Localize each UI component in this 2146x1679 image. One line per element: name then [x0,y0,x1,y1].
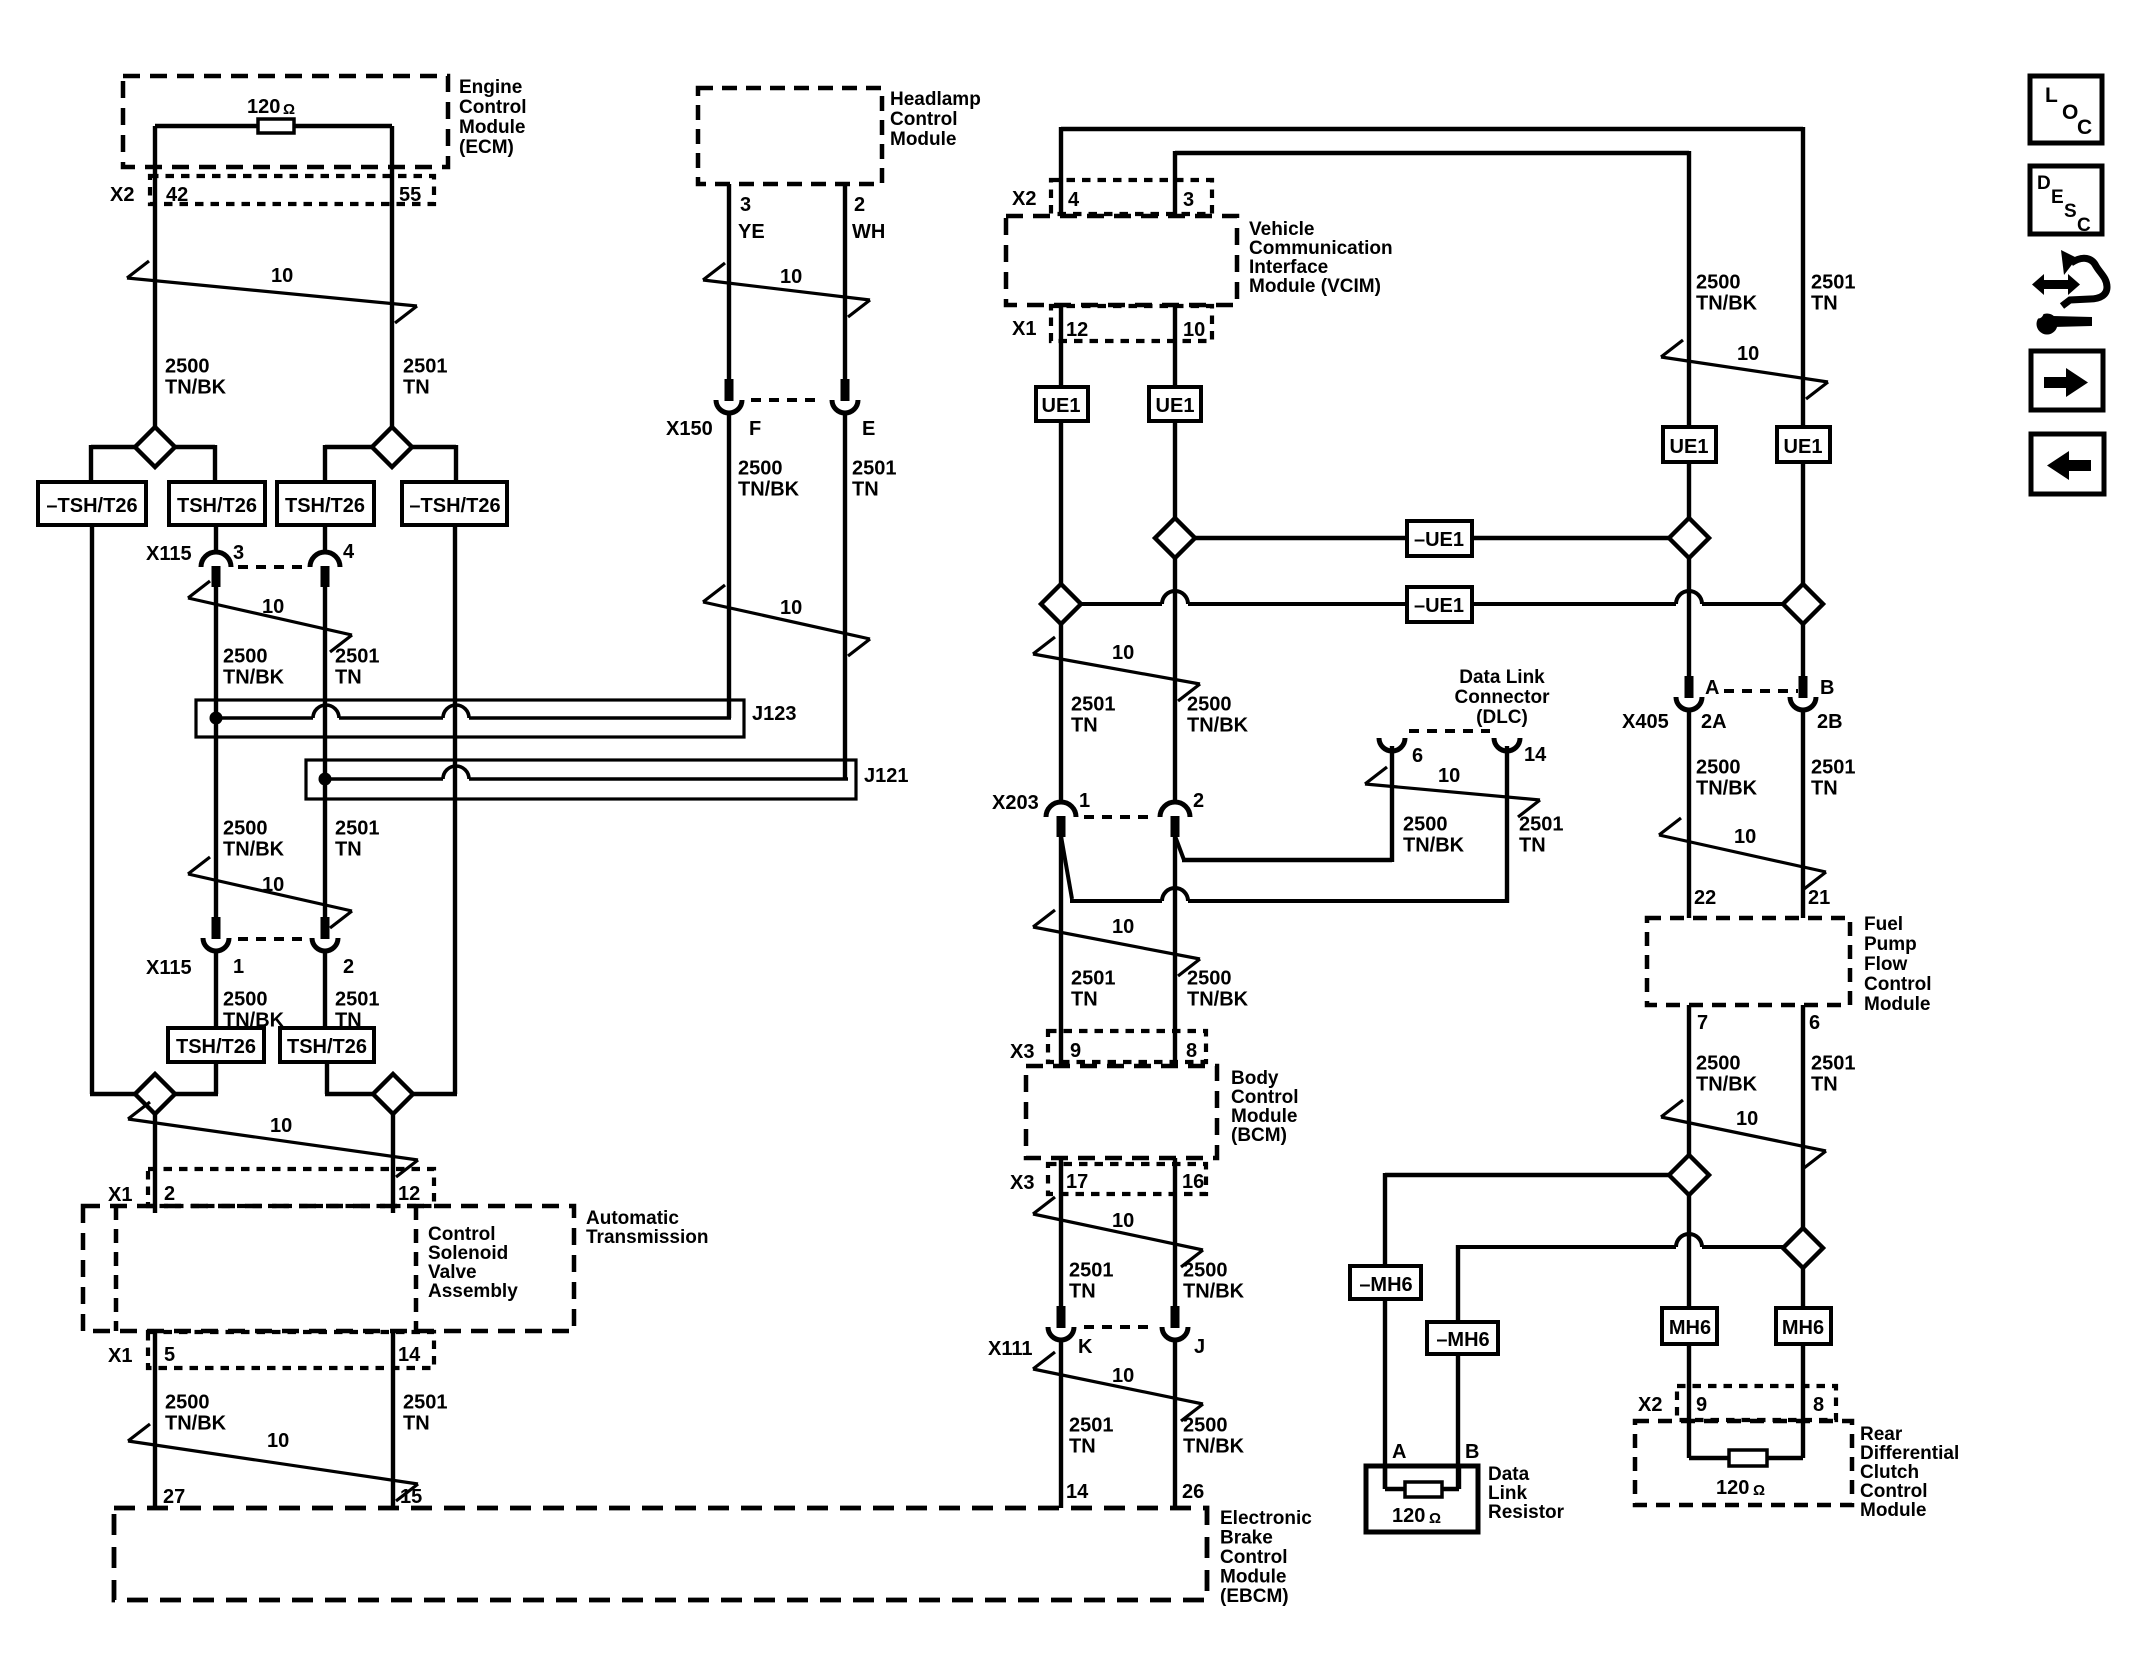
svg-text:Assembly: Assembly [428,1281,518,1302]
pin 1 label (X115) [233,956,244,978]
connector row X2 (VCIM) dotted box [1051,180,1212,214]
svg-text:C: C [2077,215,2091,236]
svg-text:TN/BK: TN/BK [738,479,800,501]
pin 42 (ECM X2) [166,184,188,206]
svg-text:YE: YE [738,221,765,243]
wire splice S2 to -TSH/T26 branch [412,445,456,482]
svg-text:Module: Module [1231,1106,1298,1127]
pin 26 label (EBCM) [1182,1481,1204,1503]
wire splice S8 to X405 B [1801,622,1805,676]
svg-text:TN: TN [1069,1436,1096,1458]
pin 6 label (fuel pump) [1809,1012,1820,1034]
twisted pair indicator below X203 [1033,910,1200,976]
label Data Link Connector (DLC) [1455,667,1551,728]
wire TSH/T26 lower-right to splice S4 [325,1062,373,1094]
label 2501 TN (above BCM) [1071,968,1116,1011]
label 2501 TN (top right) [1811,272,1856,315]
svg-text:10: 10 [1737,343,1759,365]
twisted pair indicator top right [1661,340,1828,399]
label 2500 TN/BK (X405) [1696,757,1758,800]
svg-text:2500: 2500 [165,356,210,378]
splice S10 diamond 2501 right [1783,1228,1823,1268]
svg-text:(DLC): (DLC) [1476,707,1528,728]
splice pack J121 housing [306,760,856,799]
pin A label (data link resistor) [1392,1441,1406,1463]
svg-text:(ECM): (ECM) [459,137,514,158]
svg-text:1: 1 [233,956,244,978]
label Data Link Resistor [1488,1464,1565,1523]
svg-text:8: 8 [1186,1040,1197,1062]
module Data Link Resistor box [1366,1466,1478,1532]
twisted pair indicator above EBCM [128,1424,418,1501]
wire UE1 right to splice S8 [1801,462,1805,584]
connector X405 dashed link [1724,689,1798,693]
svg-text:Transmission: Transmission [586,1227,709,1248]
svg-text:Flow: Flow [1864,954,1907,975]
svg-text:J123: J123 [752,703,797,725]
pin 21 label (fuel pump) [1808,887,1830,909]
connector X405 B terminal [1790,676,1816,710]
pin 15 label (EBCM) [400,1486,422,1508]
svg-text:–MH6: –MH6 [1359,1274,1412,1296]
label Fuel Pump Flow Control Module [1864,914,1932,1015]
splice S3 diamond lower 2500 [135,1074,175,1114]
label X3 (BCM upper) [1010,1041,1034,1063]
svg-text:TN/BK: TN/BK [223,839,285,861]
harness tag -TSH/T26 (right) [402,482,507,525]
svg-text:–TSH/T26: –TSH/T26 [409,495,500,517]
svg-text:2A: 2A [1701,711,1727,733]
svg-text:10: 10 [262,596,284,618]
pin 2 label (headlamp) [854,194,865,216]
wire splice S10 branch to -MH6 lower [1458,1234,1784,1322]
svg-text:(EBCM): (EBCM) [1220,1586,1289,1607]
svg-text:(BCM): (BCM) [1231,1125,1287,1146]
connector X115 lower dashed link [238,937,306,941]
splice S9 diamond 2500 right [1669,1155,1709,1195]
wire -UE1 lower run [1081,591,1785,604]
wire VCIM pin 10 down [1173,305,1177,387]
svg-text:Resistor: Resistor [1488,1502,1565,1523]
wire 2501 TN to X203 pin 1 [1059,624,1063,801]
wire 2501 TN BCM to X111 K [1059,1158,1063,1306]
svg-text:TN/BK: TN/BK [165,1413,227,1435]
svg-text:15: 15 [400,1486,422,1508]
label 2501 TN (A/T to EBCM) [403,1392,448,1435]
svg-text:TSH/T26: TSH/T26 [285,495,365,517]
svg-text:D: D [2037,173,2051,194]
svg-text:6: 6 [1412,745,1423,767]
svg-text:2501: 2501 [1519,814,1564,836]
wire X111 K to EBCM pin 14 [1059,1338,1063,1508]
svg-text:TN: TN [1811,293,1838,315]
icon LOC button [2030,76,2102,143]
connector X115 upper dashed link [238,565,306,569]
icon wrench [2033,308,2093,335]
svg-text:X111: X111 [988,1338,1033,1360]
svg-text:10: 10 [1112,1210,1134,1232]
svg-text:2501: 2501 [1811,757,1856,779]
label X115 (upper) [146,543,192,565]
svg-text:Control: Control [459,97,527,118]
pin 6 label (DLC) [1412,745,1423,767]
label 2500 TN/BK (A/T to EBCM) [165,1392,227,1435]
harness tag TSH/T26 (lower right) [280,1028,374,1062]
connector X115 pin 1 terminal [203,917,229,951]
pin 8 label (rear diff) [1813,1394,1824,1416]
svg-text:Brake: Brake [1220,1527,1273,1548]
splice S2 diamond on 2501 [372,427,412,467]
pin 17 label (BCM) [1066,1171,1088,1193]
label X1 (VCIM) [1012,318,1036,340]
svg-text:Module: Module [459,117,526,138]
label 2501 TN (X115 upper) [335,646,380,689]
svg-text:10: 10 [267,1430,289,1452]
label 2501 TN (below VCIM) [1071,694,1116,737]
wire long vertical left -TSH/T26 to splice S3 [90,525,135,1094]
label X405 [1622,711,1669,733]
svg-text:B: B [1465,1441,1479,1463]
svg-text:21: 21 [1808,887,1830,909]
svg-text:2: 2 [343,956,354,978]
svg-text:14: 14 [1066,1481,1089,1503]
svg-text:Control: Control [1864,974,1932,995]
harness tag TSH/T26 (left) [169,482,265,525]
svg-text:TN: TN [335,667,362,689]
pin 10 label (VCIM X1) [1183,319,1205,341]
svg-text:X2: X2 [1638,1394,1662,1416]
twisted pair indicator below X111 [1033,1352,1203,1421]
svg-text:16: 16 [1182,1171,1204,1193]
svg-text:Interface: Interface [1249,257,1328,278]
wire splice S10 to MH6 [1801,1268,1805,1308]
svg-text:Control: Control [1231,1087,1299,1108]
svg-text:Differential: Differential [1860,1443,1959,1464]
svg-text:26: 26 [1182,1481,1204,1503]
junction dot 2500 on J123 bus [210,712,223,725]
svg-text:MH6: MH6 [1782,1317,1824,1339]
label 2500 TN/BK (below BCM) [1183,1260,1245,1303]
pin 16 label (BCM) [1182,1171,1204,1193]
svg-text:X115: X115 [146,957,192,979]
twisted pair indicator (headlamp) [703,263,870,317]
module Body Control Module dashed box [1026,1066,1217,1158]
svg-text:TN/BK: TN/BK [1183,1281,1245,1303]
svg-text:2: 2 [854,194,865,216]
svg-text:Control: Control [1860,1481,1928,1502]
module Fuel Pump Flow Control Module dashed box [1647,918,1850,1005]
pin 5 label (A/T X1) [164,1344,175,1366]
svg-text:TN/BK: TN/BK [1187,989,1249,1011]
svg-text:2501: 2501 [1811,1053,1856,1075]
wire X111 J to EBCM pin 26 [1173,1338,1177,1508]
svg-text:12: 12 [398,1183,420,1205]
pin K label (X111) [1078,1336,1093,1358]
wire splice S4 to A/T X1 pin 12 [391,1114,395,1213]
label Electronic Brake Control Module (EBCM) [1220,1508,1312,1607]
svg-text:X3: X3 [1010,1041,1034,1063]
svg-text:X2: X2 [110,184,134,206]
svg-text:Body: Body [1231,1068,1279,1089]
svg-text:2500: 2500 [223,989,268,1011]
pin 9 label (BCM) [1070,1040,1081,1062]
svg-text:Rear: Rear [1860,1424,1903,1445]
svg-text:F: F [749,418,761,440]
svg-text:2501: 2501 [403,1392,448,1414]
svg-text:Automatic: Automatic [586,1208,679,1229]
svg-text:X405: X405 [1622,711,1669,733]
svg-text:10: 10 [1438,765,1460,787]
wire UE1 right to splice S7 [1687,462,1691,520]
label 2501 TN (below fuel pump) [1811,1053,1856,1096]
twisted pair indicator above transmission [128,1102,418,1177]
pin 12 label (A/T X1) [398,1183,420,1205]
twisted pair indicator above X115 lower [188,857,352,928]
icon back arrow button [2031,434,2104,494]
wire 2501 TN from ECM pin 55 [390,126,394,429]
svg-text:TSH/T26: TSH/T26 [177,495,257,517]
svg-text:TN: TN [403,1413,430,1435]
pin 2B label (X405) [1817,711,1843,733]
wire X405 A to fuel pump pin 22 [1687,708,1691,918]
svg-text:2: 2 [164,1183,175,1205]
svg-text:2501: 2501 [1071,968,1116,990]
svg-text:Control: Control [428,1224,496,1245]
wire 2501 TN A/T pin 14 to EBCM pin 15 [391,1332,395,1508]
svg-text:Pump: Pump [1864,934,1917,955]
svg-text:TN: TN [1811,778,1838,800]
svg-text:120: 120 [247,96,280,118]
harness tag -TSH/T26 (far left) [38,482,146,525]
wire TSH/T26 to X115 pin 3 [214,525,218,551]
svg-text:2501: 2501 [1071,694,1116,716]
label X2 (VCIM) [1012,188,1036,210]
svg-text:2501: 2501 [1811,272,1856,294]
pin E label (X150) [862,418,875,440]
wire MH6 to rear diff X2 pin 9 [1687,1344,1691,1423]
label 2501 TN (X150) [852,458,897,501]
svg-text:TN/BK: TN/BK [1696,1074,1758,1096]
harness tag -MH6 (lower) [1427,1322,1498,1354]
svg-text:Clutch: Clutch [1860,1462,1919,1483]
pin 4 label (X115) [343,541,355,563]
label Rear Differential Clutch Control Module [1860,1424,1959,1521]
svg-text:Module (VCIM): Module (VCIM) [1249,276,1381,297]
label 2500 TN/BK (X150) [738,458,800,501]
wire splice S1 to -TSH/T26 branch [91,445,135,482]
svg-text:10: 10 [262,874,284,896]
svg-text:12: 12 [1066,319,1088,341]
svg-text:Solenoid: Solenoid [428,1243,508,1264]
svg-text:TN: TN [403,377,430,399]
svg-text:TN/BK: TN/BK [1403,835,1465,857]
wire 2500 TN/BK from ECM pin 42 [153,126,157,429]
pin 8 label (BCM) [1186,1040,1197,1062]
wire fuel pump pin 6 to splice S10 [1801,1005,1805,1229]
wire -MH6 upper to data link resistor A [1383,1299,1387,1489]
svg-text:X203: X203 [992,792,1039,814]
resistor R3 120 ohm (data link) [1385,1466,1459,1497]
twisted pair indicator (ECM) [127,261,417,323]
wire 2501 TN X115-4 down to X115-2 [323,587,327,917]
svg-text:10: 10 [780,597,802,619]
svg-text:E: E [862,418,875,440]
pin 14 label (DLC) [1524,744,1547,766]
label WH wire color [852,221,885,243]
label 2500 TN/BK (DLC) [1403,814,1465,857]
svg-text:2501: 2501 [1069,1415,1114,1437]
pin 2 label (X203) [1193,790,1204,812]
label 2500 TN/BK (ECM) [165,356,227,399]
label X1 (lower A/T) [108,1345,132,1367]
label X115 (lower) [146,957,192,979]
wire CAN top run pin4 to 2501 TN right [1061,127,1803,429]
harness tag -UE1 (lower) [1407,587,1472,622]
icon harness routing double arrow [2032,274,2080,295]
label 2500 TN/BK (X115 lower) [223,989,285,1032]
splice pack J123 housing [196,700,744,737]
wire -MH6 lower to data link resistor B [1456,1354,1460,1489]
svg-text:Electronic: Electronic [1220,1508,1312,1529]
pin 3 label (X115) [233,542,244,564]
harness tag TSH/T26 (lower left) [168,1028,264,1062]
svg-text:2501: 2501 [852,458,897,480]
connector X150 E terminal [832,379,858,413]
label 2501 TN (X115 lower) [335,989,380,1032]
svg-text:2500: 2500 [1696,272,1741,294]
wire 2500 TN/BK X150-F to J123 bus [727,412,731,718]
svg-text:14: 14 [398,1344,421,1366]
wire 2501 TN X203 down to BCM [1059,837,1063,1066]
label 2501 TN (above EBCM) [1069,1415,1114,1458]
svg-text:X115: X115 [146,543,192,565]
module Automatic Transmission outer dashed box [83,1206,574,1331]
connector X405 A terminal [1676,676,1702,710]
svg-text:2500: 2500 [1187,968,1232,990]
svg-text:Communication: Communication [1249,238,1393,259]
svg-text:10: 10 [270,1115,292,1137]
svg-text:Connector: Connector [1455,687,1551,708]
svg-text:TN: TN [1069,1281,1096,1303]
pin 2A label (X405) [1701,711,1727,733]
wire X405 B to fuel pump pin 21 [1801,708,1805,918]
svg-text:UE1: UE1 [1042,395,1081,417]
wire 2500 TN/BK X203 down to BCM [1173,837,1177,1066]
svg-text:2500: 2500 [1183,1260,1228,1282]
svg-text:27: 27 [163,1486,185,1508]
wire splice S2 to TSH/T26 branch [325,445,372,482]
connector row X1 upper (A/T) dotted box [148,1169,434,1206]
connector row X3 lower (BCM) dotted box [1048,1164,1206,1194]
wire branch 2501 to DLC pin 14 [1061,746,1507,903]
module Rear Differential Clutch Control Module dashed box [1635,1421,1852,1505]
svg-text:10: 10 [1183,319,1205,341]
svg-text:2500: 2500 [738,458,783,480]
svg-text:Module: Module [890,129,957,150]
svg-text:5: 5 [164,1344,175,1366]
label X1 (upper A/T) [108,1184,132,1206]
svg-text:UE1: UE1 [1156,395,1195,417]
svg-text:E: E [2051,187,2064,208]
wire X115-2 to TSH/T26 lower [323,949,327,1028]
svg-text:10: 10 [1112,916,1134,938]
svg-text:22: 22 [1694,887,1716,909]
twisted pair indicator below X150 [703,585,870,656]
connector DLC pin 14 terminal [1494,738,1520,751]
connector X203 pin 1 terminal [1046,802,1076,837]
pin 12 label (VCIM X1) [1066,319,1088,341]
svg-text:TN: TN [1519,835,1546,857]
svg-text:9: 9 [1696,1394,1707,1416]
svg-text:TN: TN [1811,1074,1838,1096]
pin 22 label (fuel pump) [1694,887,1716,909]
resistor R1 120 ohm inside ECM [247,96,295,133]
wire ECM resistor to pins [155,124,392,128]
svg-text:Module: Module [1220,1566,1287,1587]
svg-text:3: 3 [1183,189,1194,211]
harness tag MH6 (left) [1662,1308,1717,1344]
connector X150 dashed link [751,398,823,402]
svg-text:2500: 2500 [223,646,268,668]
wire -UE1 upper run [1195,536,1671,540]
svg-text:O: O [2062,101,2078,124]
splice pack J121 bus bar [325,766,848,779]
wire 2500 TN/BK A/T pin 5 to EBCM pin 27 [153,1332,157,1508]
svg-text:Data Link: Data Link [1459,667,1545,688]
harness tag UE1 on 2500 [1149,387,1201,421]
wire VCIM pin 12 down [1059,305,1063,387]
svg-text:2500: 2500 [223,818,268,840]
label 120 ohm (data link) [1392,1505,1441,1527]
svg-text:TSH/T26: TSH/T26 [176,1036,256,1058]
svg-text:A: A [1392,1441,1406,1463]
svg-text:2500: 2500 [1187,694,1232,716]
wire splice S9 branch to -MH6 upper [1385,1173,1671,1266]
svg-text:WH: WH [852,221,885,243]
label X111 [988,1338,1033,1360]
svg-text:Ω: Ω [1753,1482,1765,1499]
label 2500 TN/BK (X115 upper) [223,646,285,689]
svg-text:Data: Data [1488,1464,1530,1485]
svg-text:1: 1 [1079,790,1090,812]
wire splice S3 to A/T X1 pin 2 [153,1114,157,1213]
label X150 [666,418,713,440]
svg-text:X1: X1 [1012,318,1036,340]
label 2500 TN/BK (below VCIM) [1187,694,1249,737]
svg-text:2501: 2501 [335,989,380,1011]
svg-text:2B: 2B [1817,711,1843,733]
wire 2500 TN/BK to X203 pin 2 [1173,558,1177,801]
connector X115 pin 3 terminal [201,552,231,587]
svg-text:10: 10 [1736,1108,1758,1130]
svg-text:7: 7 [1697,1012,1708,1034]
connector row X2 (rear diff) dotted box [1677,1386,1836,1420]
svg-text:120: 120 [1716,1477,1749,1499]
svg-text:2500: 2500 [165,1392,210,1414]
wire X115-1 to TSH/T26 lower [214,949,218,1028]
wire 2500 TN/BK X115-3 down through J123 to X115-1 [214,587,218,917]
svg-text:X1: X1 [108,1345,132,1367]
splice S8 diamond right 2501 [1783,584,1823,624]
label Body Control Module (BCM) [1231,1068,1299,1146]
junction dot 2501 on J121 bus [319,773,332,786]
wire fuel pump pin 7 to splice S9 [1687,1005,1691,1156]
connector X111 dashed link [1084,1325,1152,1329]
label 2500 TN/BK (above BCM) [1187,968,1249,1011]
svg-text:6: 6 [1809,1012,1820,1034]
svg-text:Headlamp: Headlamp [890,89,981,110]
twisted pair indicator below X115 upper [188,581,352,652]
